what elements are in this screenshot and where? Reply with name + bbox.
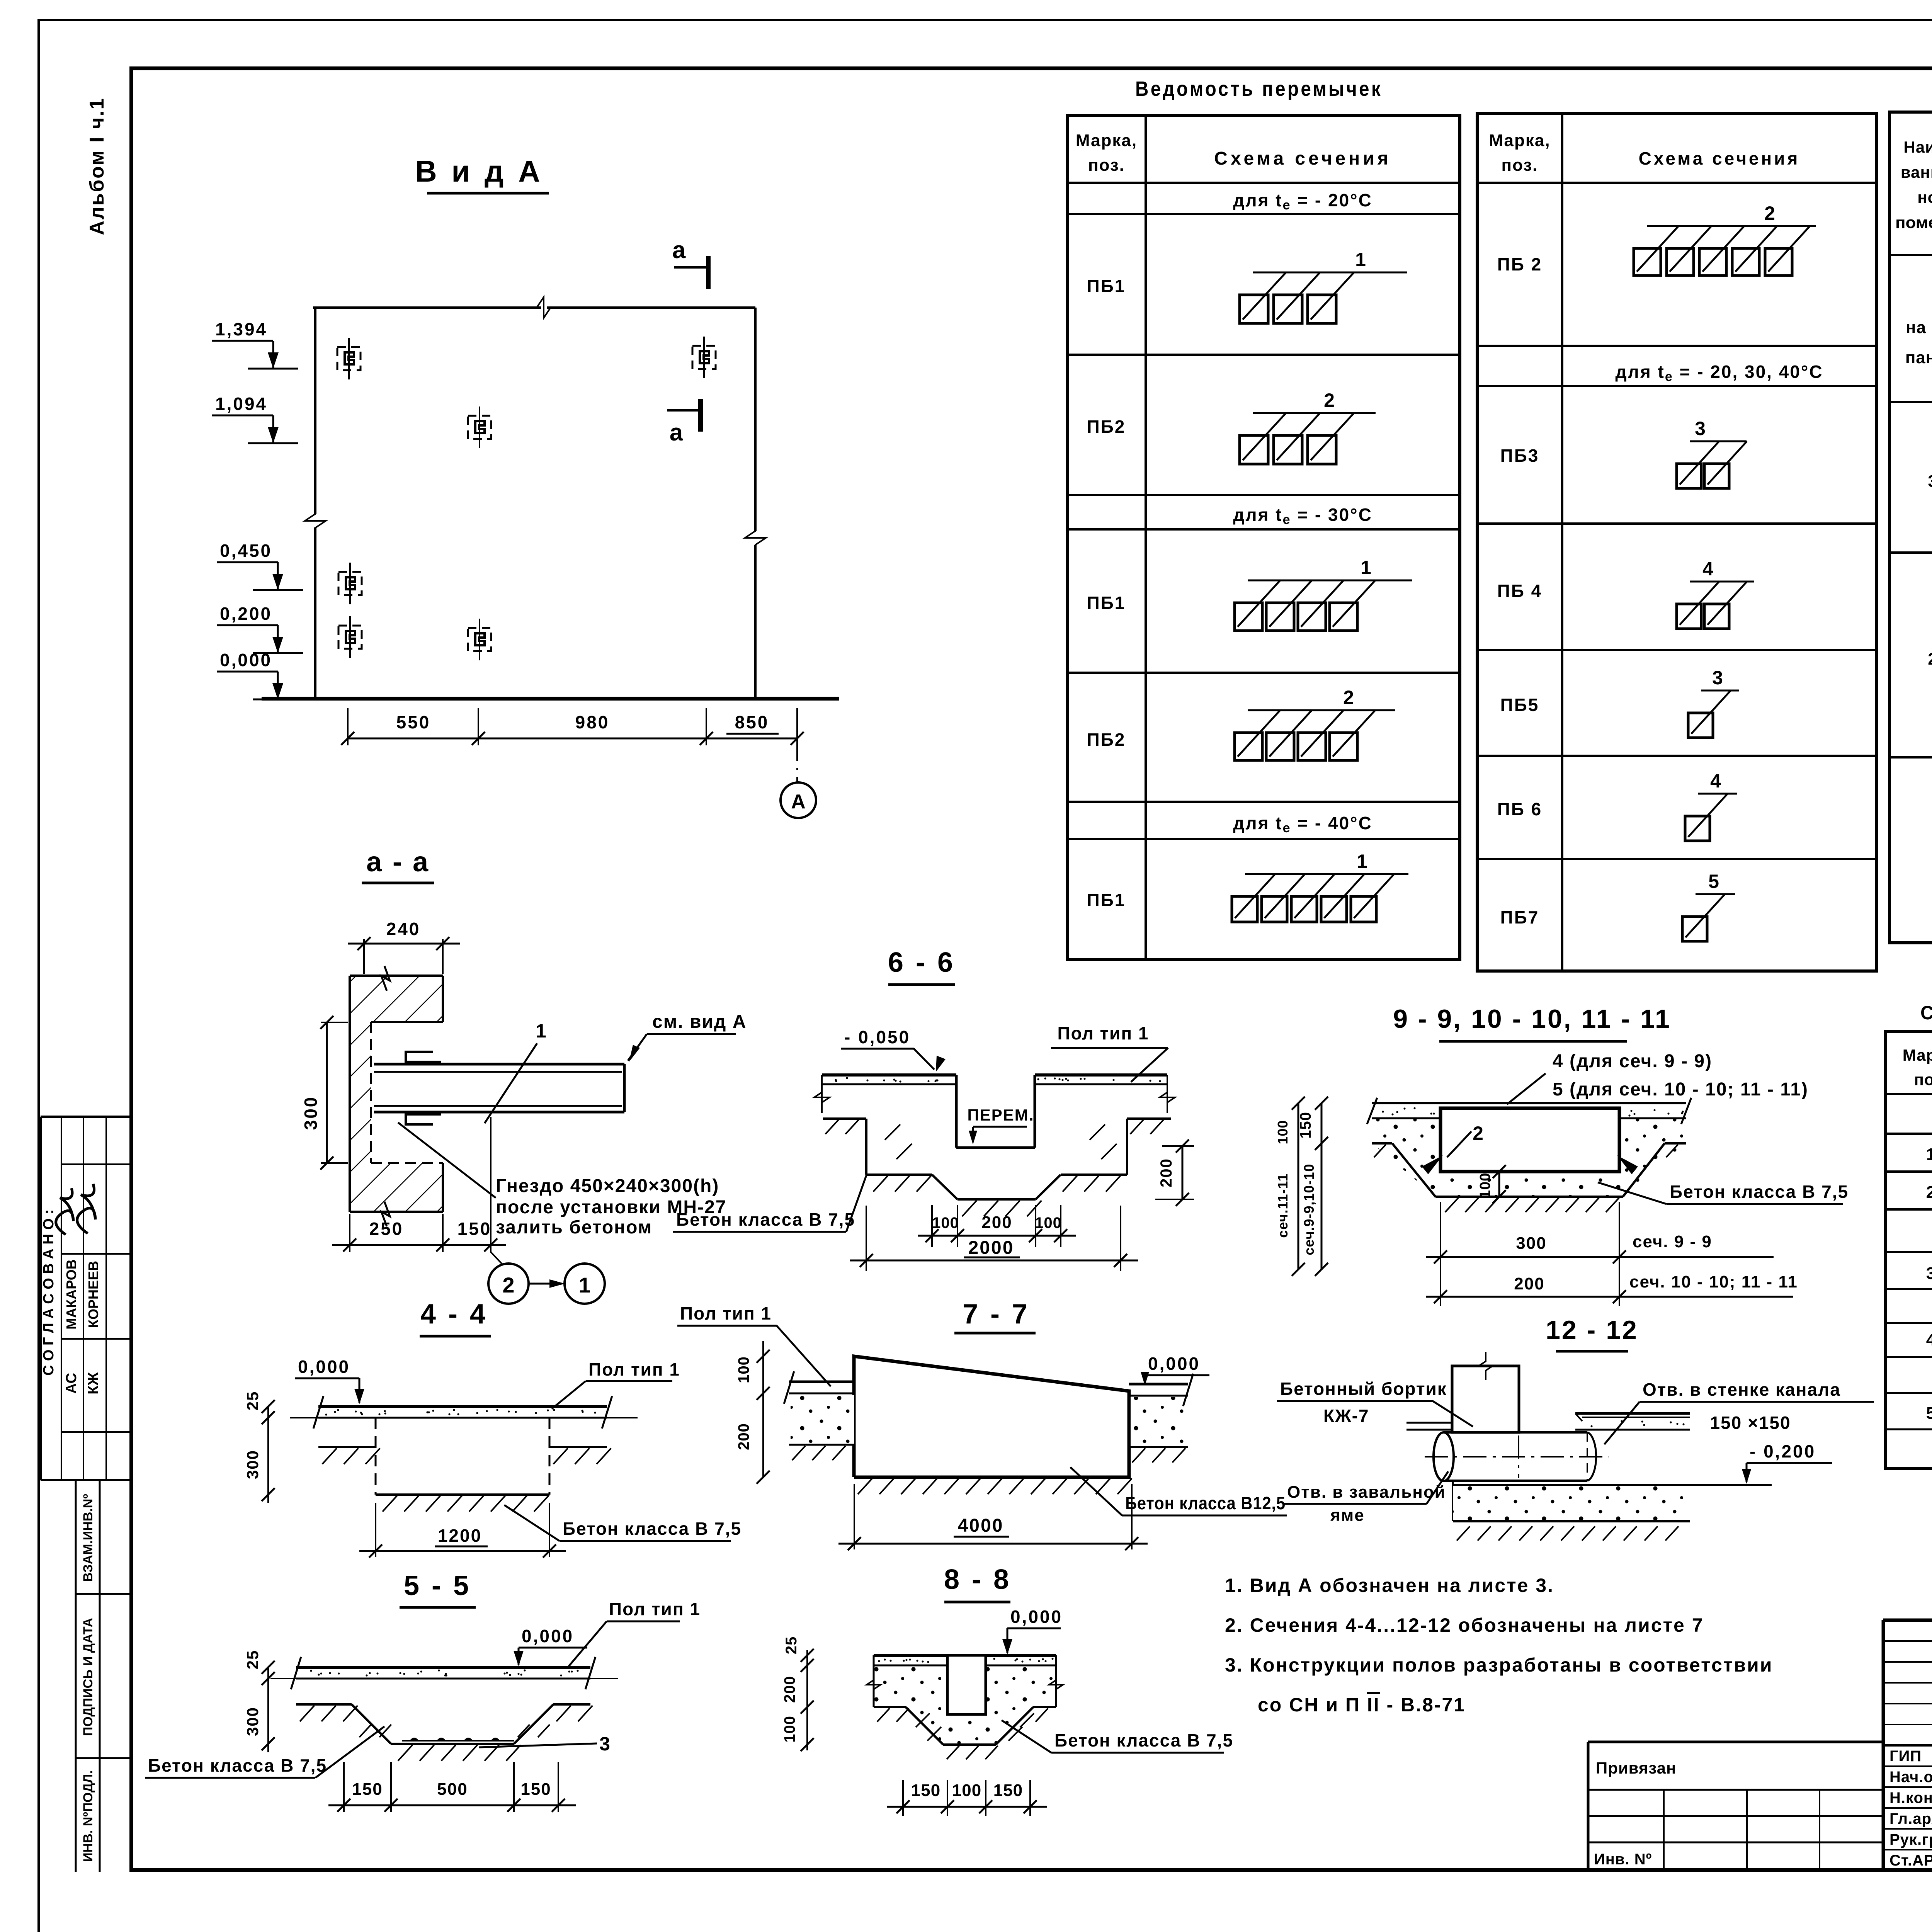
svg-text:Нач.отд.: Нач.отд. xyxy=(1889,1769,1932,1786)
svg-text:300: 300 xyxy=(301,1096,321,1130)
svg-text:240: 240 xyxy=(386,919,421,939)
wall top edge line xyxy=(313,306,541,309)
svg-text:0,200: 0,200 xyxy=(220,604,272,624)
section 9-9 floor surface line xyxy=(1372,1102,1686,1104)
svg-text:Бетон класса В 7,5: Бетон класса В 7,5 xyxy=(563,1519,742,1539)
section 5-5 gravel bumps xyxy=(410,1738,419,1741)
svg-text:АС: АС xyxy=(63,1373,80,1394)
section 9-9 corner arrows xyxy=(1422,1155,1443,1174)
svg-text:Схема сечения: Схема сечения xyxy=(1639,148,1800,168)
leader from labels to tray xyxy=(1507,1073,1546,1104)
svg-text:200: 200 xyxy=(735,1423,752,1450)
dimension extension lines below ground xyxy=(347,708,349,745)
section 8-8 side breaks xyxy=(873,1655,875,1707)
svg-text:Отв. в стенке канала: Отв. в стенке канала xyxy=(1643,1379,1841,1400)
svg-text:2, 4: 2, 4 xyxy=(1928,650,1932,668)
axis circle A xyxy=(781,782,816,818)
svg-text:150: 150 xyxy=(993,1781,1023,1800)
section 9-9 concrete bed xyxy=(1372,1118,1686,1197)
svg-text:вание или: вание или xyxy=(1901,163,1932,181)
section 6-6 floor slabs xyxy=(822,1073,956,1077)
svg-text:300: 300 xyxy=(243,1707,262,1736)
svg-text:150: 150 xyxy=(457,1219,492,1239)
svg-text:2: 2 xyxy=(1324,389,1335,411)
svg-text:а - а: а - а xyxy=(366,847,430,878)
svg-text:Бетон класса В12,5: Бетон класса В12,5 xyxy=(1125,1493,1286,1513)
svg-text:поз.: поз. xyxy=(1914,1070,1932,1088)
svg-text:1,094: 1,094 xyxy=(215,394,267,414)
svg-text:6 - 6: 6 - 6 xyxy=(888,947,955,978)
svg-text:ПБ2: ПБ2 xyxy=(1087,730,1126,750)
svg-text:4000: 4000 xyxy=(958,1515,1004,1536)
embedded plate MN lower-left-1 xyxy=(338,572,362,595)
svg-text:ПБ 4: ПБ 4 xyxy=(1497,581,1543,601)
svg-text:4: 4 xyxy=(1710,770,1721,792)
svg-text:для tе = - 30°С: для tе = - 30°С xyxy=(1233,505,1372,527)
pipe centerline xyxy=(1425,1456,1609,1458)
svg-text:150: 150 xyxy=(1297,1112,1314,1139)
section 5-5 dim 25-300 xyxy=(267,1667,269,1752)
svg-text:100: 100 xyxy=(1035,1214,1062,1231)
svg-text:Гнездо 450×240×300(h): Гнездо 450×240×300(h) xyxy=(496,1176,719,1196)
svg-text:Бетон класса В 7,5: Бетон класса В 7,5 xyxy=(676,1209,855,1230)
svg-text:3, 6: 3, 6 xyxy=(1928,472,1932,491)
svg-text:для tе = - 40°С: для tе = - 40°С xyxy=(1233,813,1372,835)
svg-text:Рук.гр.: Рук.гр. xyxy=(1889,1831,1932,1848)
svg-text:помещения: помещения xyxy=(1895,213,1932,231)
concrete curb xyxy=(1452,1366,1519,1432)
svg-text:- 0,050: - 0,050 xyxy=(844,1027,910,1047)
svg-text:2: 2 xyxy=(502,1273,514,1297)
section 9-9 left rotated dims xyxy=(1321,1103,1323,1143)
embedded plate MN top-right xyxy=(692,346,716,369)
svg-text:сеч. 9 - 9: сеч. 9 - 9 xyxy=(1633,1232,1712,1251)
section 4-4 dim 1200 xyxy=(375,1503,376,1557)
embedded plate MN top-left xyxy=(337,347,361,370)
section 6-6 dim 200 right xyxy=(1162,1145,1194,1147)
svg-text:5: 5 xyxy=(1708,871,1719,892)
svg-text:8 - 8: 8 - 8 xyxy=(944,1564,1011,1595)
svg-text:Пол тип 1: Пол тип 1 xyxy=(588,1359,680,1379)
svg-text:1: 1 xyxy=(1355,249,1366,270)
detail circle 2 xyxy=(488,1264,529,1304)
svg-text:ПБ 6: ПБ 6 xyxy=(1497,799,1543,819)
svg-text:Ст.АРХ: Ст.АРХ xyxy=(1889,1852,1932,1869)
section 5-5 floor slab xyxy=(296,1666,590,1669)
svg-text:см. вид А: см. вид А xyxy=(652,1012,747,1032)
svg-text:1200: 1200 xyxy=(438,1526,482,1546)
svg-text:сеч.11-11: сеч.11-11 xyxy=(1275,1173,1291,1238)
svg-text:Пол тип 1: Пол тип 1 xyxy=(1058,1023,1149,1043)
svg-text:200: 200 xyxy=(1514,1274,1544,1293)
svg-text:ПБ 2: ПБ 2 xyxy=(1497,254,1543,274)
dim 300 left xyxy=(321,1022,348,1023)
svg-text:5 (для сеч. 10 - 10; 11 - 11: 5 (для сеч. 10 - 10; 11 - 11) xyxy=(1553,1079,1808,1100)
svg-text:4 - 4: 4 - 4 xyxy=(420,1299,488,1330)
svg-text:3: 3 xyxy=(1695,418,1706,439)
wall left edge xyxy=(314,308,316,514)
wall right edge xyxy=(754,308,757,531)
svg-text:Бетонный бортик: Бетонный бортик xyxy=(1280,1379,1447,1399)
svg-text:200: 200 xyxy=(781,1676,798,1703)
label 1 with leader xyxy=(485,1043,537,1123)
floor explication grid xyxy=(1889,112,1932,943)
svg-text:пандусы: пандусы xyxy=(1905,348,1932,367)
svg-text:0,000: 0,000 xyxy=(1148,1354,1200,1374)
section 4-4 pit bottom xyxy=(376,1493,549,1496)
svg-text:200: 200 xyxy=(981,1213,1012,1232)
svg-text:4 (для сеч. 9 - 9): 4 (для сеч. 9 - 9) xyxy=(1553,1051,1712,1071)
svg-text:100: 100 xyxy=(952,1781,981,1800)
svg-text:для tе = - 20, 30, 40°С: для tе = - 20, 30, 40°С xyxy=(1615,362,1823,384)
svg-text:ПБ2: ПБ2 xyxy=(1087,417,1126,437)
svg-text:ПОДПИСЬ И ДАТА: ПОДПИСЬ И ДАТА xyxy=(81,1618,95,1736)
svg-text:Привязан: Привязан xyxy=(1596,1759,1676,1777)
svg-text:250: 250 xyxy=(369,1219,404,1239)
svg-text:300: 300 xyxy=(1516,1234,1546,1253)
svg-text:4: 4 xyxy=(1702,558,1713,580)
signature squiggle Korneev xyxy=(77,1184,95,1233)
svg-text:Схема сечения: Схема сечения xyxy=(1214,148,1391,169)
pipe xyxy=(1444,1431,1587,1434)
section 7-7 dim 100-200 left xyxy=(762,1341,764,1477)
svg-text:МАКАРОВ: МАКАРОВ xyxy=(63,1259,79,1330)
svg-text:ПБ5: ПБ5 xyxy=(1500,695,1539,715)
svg-text:7 - 7: 7 - 7 xyxy=(963,1299,1030,1330)
svg-text:поз.: поз. xyxy=(1088,156,1125,175)
svg-text:1: 1 xyxy=(1361,557,1371,578)
svg-text:100: 100 xyxy=(1477,1173,1493,1198)
lintel table 2 grid xyxy=(1477,114,1876,971)
section 4-4 pit dashed walls xyxy=(375,1418,377,1495)
svg-text:4: 4 xyxy=(1926,1330,1932,1349)
section 8-8 dims left xyxy=(806,1650,808,1750)
section 6-6 dims 100-200-100 xyxy=(931,1205,933,1247)
svg-text:100: 100 xyxy=(735,1356,752,1383)
svg-text:Отв. в завальной: Отв. в завальной xyxy=(1287,1483,1446,1502)
floor slab right xyxy=(1575,1412,1690,1415)
svg-text:Бетон класса В 7,5: Бетон класса В 7,5 xyxy=(1670,1182,1849,1202)
wall outline xyxy=(349,976,351,1212)
svg-text:Инв. Nº: Инв. Nº xyxy=(1594,1851,1652,1868)
svg-text:2000: 2000 xyxy=(968,1238,1014,1258)
svg-text:Ведомость перемычек: Ведомость перемычек xyxy=(1135,77,1383,100)
svg-text:1: 1 xyxy=(1926,1145,1932,1164)
svg-text:12 - 12: 12 - 12 xyxy=(1546,1315,1638,1345)
svg-text:ВЗАМ.ИНВ.Nº: ВЗАМ.ИНВ.Nº xyxy=(81,1494,95,1582)
section 7-7 hatch under ramp xyxy=(858,1478,872,1494)
section 4-4 ground lines xyxy=(318,1446,376,1448)
svg-text:2: 2 xyxy=(1473,1122,1483,1144)
svg-text:5 - 5: 5 - 5 xyxy=(404,1570,471,1601)
svg-text:100: 100 xyxy=(1275,1120,1291,1144)
section 9-9 dim 300 sech 9-9 xyxy=(1440,1202,1441,1306)
embedded plate MN lower-mid xyxy=(468,628,491,651)
svg-text:Пол тип 1: Пол тип 1 xyxy=(680,1303,772,1323)
svg-text:100: 100 xyxy=(932,1214,959,1231)
amendment grid rows xyxy=(1883,1640,1932,1642)
svg-text:500: 500 xyxy=(437,1780,468,1799)
svg-text:0,000: 0,000 xyxy=(522,1626,574,1646)
svg-text:1,394: 1,394 xyxy=(215,319,267,339)
svg-text:25: 25 xyxy=(243,1650,262,1670)
svg-text:3: 3 xyxy=(1712,667,1723,689)
svg-text:25: 25 xyxy=(783,1636,800,1655)
svg-text:100: 100 xyxy=(781,1716,798,1743)
svg-text:Марка,: Марка, xyxy=(1076,131,1137,150)
svg-text:- 0,200: - 0,200 xyxy=(1750,1441,1816,1461)
section 5-5 ground and pit xyxy=(296,1703,352,1706)
specification grid xyxy=(1885,1032,1932,1469)
dim 240 top xyxy=(363,939,365,974)
svg-text:ПБ1: ПБ1 xyxy=(1087,593,1126,613)
beam xyxy=(374,1063,624,1066)
svg-text:сеч. 10 - 10; 11 - 11: сеч. 10 - 10; 11 - 11 xyxy=(1629,1272,1798,1291)
section 4-4 floor slab xyxy=(318,1405,607,1408)
svg-text:0,000: 0,000 xyxy=(220,650,272,670)
svg-text:1: 1 xyxy=(1357,850,1367,872)
socket niche dashed outline xyxy=(371,1021,443,1023)
svg-text:С О Г Л А С О В А Н О :: С О Г Л А С О В А Н О : xyxy=(41,1209,57,1376)
svg-text:ГИП: ГИП xyxy=(1889,1748,1922,1765)
svg-text:номер: номер xyxy=(1917,188,1932,206)
svg-text:а: а xyxy=(672,237,686,264)
svg-text:150: 150 xyxy=(352,1780,383,1799)
dim 250-150 bottom xyxy=(349,1214,350,1252)
svg-text:2. Сечения 4-4...12-12 обоз: 2. Сечения 4-4...12-12 обозначены на лис… xyxy=(1225,1614,1704,1636)
embedded plate MN middle xyxy=(468,416,491,439)
staff zone top line xyxy=(1883,1744,1932,1747)
section 9-9 bed outline xyxy=(1372,1142,1392,1145)
section 5-5 label 3 xyxy=(479,1743,597,1747)
svg-text:3: 3 xyxy=(1926,1264,1932,1283)
section 6-6 ground profile xyxy=(823,1117,866,1120)
wall hatched area xyxy=(350,976,443,1212)
svg-text:а: а xyxy=(670,419,683,446)
section mark a middle xyxy=(667,409,699,412)
svg-text:Альбом I ч.1: Альбом I ч.1 xyxy=(86,97,108,235)
svg-text:1. Вид А обозначен на листе 3: 1. Вид А обозначен на листе 3. xyxy=(1225,1575,1554,1596)
section 6-6 left extension xyxy=(821,1075,823,1113)
svg-text:КЖ-7: КЖ-7 xyxy=(1323,1406,1369,1426)
svg-text:Наимено-: Наимено- xyxy=(1904,138,1932,156)
svg-text:залить бетоном: залить бетоном xyxy=(496,1217,652,1238)
svg-text:150: 150 xyxy=(520,1780,551,1799)
section 8-8 concrete mass xyxy=(874,1665,1056,1745)
svg-text:3. Конструкции полов разраб: 3. Конструкции полов разработаны в соотв… xyxy=(1225,1654,1773,1676)
section 7-7 left floor strip xyxy=(789,1381,854,1383)
ground line xyxy=(262,697,839,701)
axis line to circle A xyxy=(796,745,798,782)
svg-text:150: 150 xyxy=(911,1781,940,1800)
svg-text:сеч.9-9,10-10: сеч.9-9,10-10 xyxy=(1301,1163,1317,1255)
section 4-4 dim 25-300 xyxy=(267,1406,269,1503)
svg-text:на весы,: на весы, xyxy=(1906,318,1932,337)
svg-text:ИНВ. NºПОДЛ.: ИНВ. NºПОДЛ. xyxy=(81,1770,95,1862)
svg-text:для tе = - 20°С: для tе = - 20°С xyxy=(1233,190,1372,213)
svg-text:ПБ1: ПБ1 xyxy=(1087,890,1126,910)
section 9-9 label 2 xyxy=(1447,1131,1471,1157)
section 8-8 pit outline xyxy=(874,1706,906,1708)
section 7-7 ramp xyxy=(854,1356,1129,1477)
svg-text:1: 1 xyxy=(578,1273,590,1297)
svg-text:В и д А: В и д А xyxy=(415,154,543,188)
title block outer xyxy=(1883,1619,1932,1622)
staff rows xyxy=(1883,1765,1932,1767)
section 8-8 dims 150-100-150 xyxy=(902,1780,904,1816)
svg-text:9 - 9, 10 - 10, 11 - 11: 9 - 9, 10 - 10, 11 - 11 xyxy=(1393,1004,1671,1034)
svg-text:поз.: поз. xyxy=(1502,156,1538,175)
svg-text:2: 2 xyxy=(1926,1183,1932,1202)
svg-text:ПБ1: ПБ1 xyxy=(1087,276,1126,296)
section 6-6 channel xyxy=(955,1075,958,1148)
svg-text:ПБ3: ПБ3 xyxy=(1500,446,1539,466)
section 6-6 dim 2000 xyxy=(866,1206,867,1271)
margin cells Vzam inv No xyxy=(76,1479,131,1481)
svg-text:980: 980 xyxy=(575,712,610,732)
section 9-9 tray box xyxy=(1440,1108,1619,1172)
embedded plate MN lower-left-2 xyxy=(338,626,362,649)
lintel table 1 grid xyxy=(1067,116,1460,959)
privyazan block xyxy=(1588,1741,1883,1743)
floor line left of curb xyxy=(1406,1422,1452,1424)
svg-text:А: А xyxy=(791,791,806,813)
svg-text:2: 2 xyxy=(1343,687,1354,708)
beam anchor plates xyxy=(406,1052,441,1062)
section 8-8 floor slabs xyxy=(874,1654,947,1657)
svg-text:0,450: 0,450 xyxy=(220,541,272,561)
svg-text:300: 300 xyxy=(243,1450,262,1479)
svg-text:КОРНЕЕВ: КОРНЕЕВ xyxy=(85,1261,101,1328)
detail arrow to circle 1 xyxy=(529,1283,562,1285)
svg-text:850: 850 xyxy=(735,712,769,732)
svg-text:0,000: 0,000 xyxy=(1010,1607,1063,1627)
svg-text:КЖ: КЖ xyxy=(85,1372,102,1395)
svg-text:5: 5 xyxy=(1926,1404,1932,1423)
approval table Soglasovano xyxy=(41,1116,132,1118)
svg-text:Бетон класса В 7,5: Бетон класса В 7,5 xyxy=(148,1755,327,1776)
svg-text:со СН и П II - В.8-71: со СН и П II - В.8-71 xyxy=(1258,1694,1466,1716)
svg-text:Марка,: Марка, xyxy=(1903,1046,1932,1064)
section 9-9 dim 100 xyxy=(1498,1172,1500,1197)
svg-text:яме: яме xyxy=(1330,1506,1365,1525)
section 7-7 dim 4000 xyxy=(854,1484,855,1549)
section 9-9 dim 200 sech 10-10 xyxy=(1426,1296,1793,1298)
svg-text:150 ×150: 150 ×150 xyxy=(1710,1413,1791,1433)
svg-text:Марка,: Марка, xyxy=(1489,131,1550,150)
signature squiggle Makarov xyxy=(56,1188,73,1235)
ground under pipe xyxy=(1452,1481,1454,1521)
svg-text:0,000: 0,000 xyxy=(298,1357,350,1377)
svg-text:Н.контр.: Н.контр. xyxy=(1889,1789,1932,1806)
svg-text:200: 200 xyxy=(1157,1158,1175,1187)
svg-text:2: 2 xyxy=(1764,202,1775,224)
svg-text:25: 25 xyxy=(243,1391,262,1411)
section 7-7 right floor strip xyxy=(1129,1383,1188,1386)
svg-text:ПБ7: ПБ7 xyxy=(1500,907,1539,927)
dimension line 550-980-850 xyxy=(348,738,797,740)
svg-text:550: 550 xyxy=(396,712,431,732)
svg-text:Пол тип 1: Пол тип 1 xyxy=(609,1599,701,1619)
svg-text:1: 1 xyxy=(536,1020,546,1042)
svg-text:ПЕРЕМ.: ПЕРЕМ. xyxy=(968,1106,1034,1124)
svg-text:Спецификация металлических э: Спецификация металлических элементов сте… xyxy=(1920,1002,1932,1024)
svg-text:Бетон класса В 7,5: Бетон класса В 7,5 xyxy=(1054,1730,1233,1750)
svg-text:3: 3 xyxy=(599,1733,610,1755)
detail circle 1 xyxy=(565,1264,605,1304)
section 8-8 channel groove xyxy=(947,1655,986,1714)
svg-text:Гл.арх.: Гл.арх. xyxy=(1889,1810,1932,1827)
section 5-5 dims 150-500-150 xyxy=(343,1762,345,1812)
